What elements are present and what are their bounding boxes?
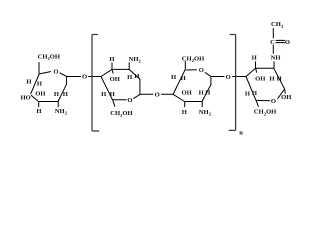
ring 4 label NH above TR	[271, 55, 282, 62]
ring 2 label H above BL left	[101, 91, 107, 98]
ring 3 bond C3-C4	[174, 95, 185, 102]
ring 3 label H above C1	[205, 89, 211, 96]
svg-text:O: O	[199, 67, 204, 74]
left bracket	[92, 35, 99, 132]
ring 4 bond BL-L	[246, 77, 256, 101]
ring 3 bond C2-C3	[185, 101, 203, 103]
svg-text:H: H	[269, 75, 275, 82]
ring 2 bond TL-TR	[112, 68, 129, 70]
ring 4 label H above BL left	[245, 90, 251, 97]
svg-text:H: H	[110, 91, 116, 98]
glycosidic O1 label	[82, 74, 87, 81]
ring 1 label H above C2	[54, 91, 60, 98]
ring 1 bond C4-C5	[31, 75, 39, 94]
svg-text:OH: OH	[281, 94, 292, 101]
ring 2 bond TR-R diagonal	[129, 69, 140, 79]
svg-text:H: H	[181, 75, 187, 82]
ring 3 bond Oring-C1	[205, 73, 211, 77]
svg-text:n: n	[239, 130, 243, 137]
ring 4 label H above TL	[252, 55, 258, 62]
ring 1 label CH2OH	[38, 54, 61, 62]
ring 3 label H on C4-C5	[171, 74, 177, 81]
acetyl label C	[270, 39, 275, 46]
ring 1 bond C3-C4	[31, 95, 38, 101]
ring 2 bond R-Oring	[134, 95, 140, 99]
svg-text:H: H	[36, 108, 42, 115]
svg-text:O: O	[127, 97, 132, 104]
svg-text:H: H	[134, 73, 140, 80]
ring 2 bond TL-H up	[111, 63, 113, 70]
svg-text:O: O	[285, 39, 290, 46]
ring 2 bond TR-R vertical	[139, 79, 141, 94]
glycosidic O3 label	[226, 74, 231, 81]
ring 1 label H on C5 left	[26, 79, 32, 86]
svg-text:O: O	[53, 69, 58, 76]
ring 1 label H below C5	[37, 81, 43, 88]
svg-text:H: H	[252, 90, 258, 97]
svg-text:H: H	[205, 89, 211, 96]
ring 2 label OH below TL	[110, 76, 121, 83]
acetyl label CH3	[271, 21, 284, 29]
ring 3 bond C3-H	[184, 102, 186, 107]
ring 2 label NH2 above TR	[129, 56, 142, 64]
svg-text:H: H	[54, 91, 60, 98]
ring 4 bond TR-R	[274, 68, 285, 89]
ring 1 label OH on C3	[35, 90, 46, 97]
ring 4 bond TL-H up	[255, 62, 257, 69]
svg-text:H: H	[199, 89, 205, 96]
svg-text:CH2OH: CH2OH	[254, 109, 277, 117]
bond O2 to ring3 C4	[162, 93, 174, 95]
svg-text:H: H	[277, 75, 283, 82]
subscript n	[239, 130, 243, 137]
ring 1 label HO on C4	[21, 95, 31, 102]
ring 4 label H below TR left	[269, 75, 275, 82]
svg-text:O: O	[82, 74, 87, 81]
svg-text:H: H	[101, 91, 107, 98]
ring 2 bond TR-NH2 up	[128, 63, 130, 70]
ring 1 bond CH2OH-C5	[38, 63, 40, 75]
ring 2 bond BL-L	[101, 77, 113, 100]
acetyl label O	[285, 39, 290, 46]
svg-text:H: H	[26, 79, 32, 86]
ring 3 label CH2OH	[182, 55, 205, 63]
ring 3 bond C1-C2 lower	[202, 85, 211, 102]
right bracket	[229, 35, 236, 131]
svg-text:H: H	[109, 56, 115, 63]
bond ring3 C1 to O3	[211, 76, 224, 78]
svg-text:O: O	[226, 74, 231, 81]
ring 3 bond C4-C5	[173, 70, 185, 94]
ring 2 label ring O	[127, 97, 132, 104]
svg-text:OH: OH	[35, 90, 46, 97]
ring 4 label OH below TL	[255, 76, 266, 83]
ring 1 bond C2-NH2	[57, 102, 59, 107]
svg-text:CH2OH: CH2OH	[182, 55, 205, 63]
ring 3 label H below C5	[181, 75, 187, 82]
bond O3 to ring4	[233, 76, 247, 78]
svg-text:H: H	[63, 91, 69, 98]
ring 1 bond C1-C2 upper	[66, 77, 68, 85]
svg-text:C: C	[270, 39, 275, 46]
svg-text:O: O	[271, 98, 276, 105]
ring 3 label OH on C3	[181, 89, 192, 96]
glycosidic bond C1-O1	[67, 76, 81, 78]
svg-text:OH: OH	[110, 76, 121, 83]
acetyl bond NH-C	[272, 45, 274, 54]
svg-text:OH: OH	[181, 89, 192, 96]
ring 1 label H below C3	[36, 108, 42, 115]
ring 1 bond C2-C3	[39, 101, 59, 103]
glycosidic bond O1-ring2	[89, 76, 102, 78]
ring 2 label H below TR	[127, 74, 133, 81]
ring 1 bond C3-H	[38, 102, 40, 107]
svg-text:CH2OH: CH2OH	[38, 54, 61, 62]
ring 3 label ring O	[199, 67, 204, 74]
ring 4 label OH on C1	[281, 94, 292, 101]
ring 2 label H above TL	[109, 56, 115, 63]
ring 3 bond C1-C2 upper	[210, 77, 212, 85]
glycosidic O2 label	[155, 92, 160, 99]
svg-text:H: H	[182, 109, 188, 116]
ring 4 bond Oring-BL	[256, 99, 270, 101]
ring 4 label ring O	[271, 98, 276, 105]
ring 1 bond C5-Oring	[40, 72, 51, 74]
ring 4 label H above BL	[252, 90, 258, 97]
svg-text:H: H	[127, 74, 133, 81]
ring 4 bond BL-CH2OH down	[256, 100, 258, 106]
ring 2 bond TL-OH down	[111, 69, 114, 73]
ring 4 bond R-Oring	[278, 90, 285, 99]
ring 2 label CH2OH below	[110, 110, 133, 118]
ring 3 bond C5-Oring	[187, 69, 197, 71]
bond ring2 C1 to O2	[140, 93, 153, 95]
ring 4 bond L-TL	[246, 68, 256, 76]
ring 3 label H above C2	[199, 89, 205, 96]
svg-text:H: H	[37, 81, 43, 88]
ring 4 bond TL-OH down	[255, 68, 258, 72]
ring 1 label ring O	[53, 69, 58, 76]
ring 2 label H right of TR	[134, 73, 140, 80]
svg-text:OH: OH	[255, 76, 266, 83]
ring 4 bond R-OH down	[284, 90, 286, 94]
svg-text:O: O	[155, 92, 160, 99]
svg-text:H: H	[171, 74, 177, 81]
svg-text:CH2OH: CH2OH	[110, 110, 133, 118]
ring 2 bond L-TL	[101, 69, 112, 76]
ring 2 label H above BL	[110, 91, 116, 98]
ring 3 label H below C3	[182, 109, 188, 116]
ring 2 bond BL-CH2OH down	[113, 100, 115, 107]
ring 4 label CH2OH below	[254, 109, 277, 117]
ring 2 bond Oring-BL	[113, 99, 127, 101]
acetyl double bond C=O	[276, 40, 285, 42]
ring 4 label H below TR right	[277, 75, 283, 82]
svg-text:HO: HO	[21, 95, 31, 102]
ring 4 bond TR-NH up	[273, 62, 275, 69]
acetyl bond C-CH3	[272, 29, 274, 39]
ring 1 bond C1-C2 lower	[58, 84, 67, 101]
ring 1 label NH2 below C2	[55, 108, 68, 116]
ring 4 bond TL-TR	[256, 67, 274, 69]
svg-text:NH: NH	[271, 55, 282, 62]
ring 1 bond Oring-C1	[60, 73, 66, 76]
ring 3 bond C2-NH2	[201, 102, 203, 107]
ring 3 bond CH2OH-C5	[184, 62, 186, 71]
ring 3 label NH2 below C2	[199, 109, 212, 117]
svg-text:H: H	[252, 55, 258, 62]
ring 1 label H above C1	[63, 91, 69, 98]
svg-text:H: H	[245, 90, 251, 97]
